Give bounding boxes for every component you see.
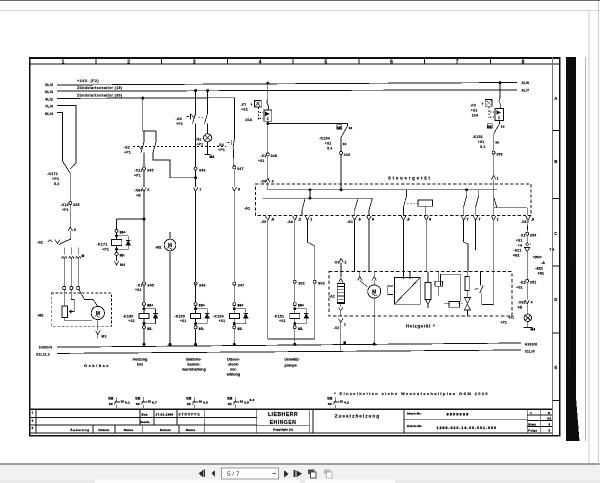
lamp H2 [204, 134, 212, 142]
heater box dashed [329, 272, 512, 317]
wire 359 to arrow 1 [493, 154, 495, 175]
svg-text:Datum: Datum [99, 428, 110, 432]
connector 85- K171 [116, 246, 118, 253]
svg-text:-S3: -S3 [176, 117, 182, 121]
svg-text:+P1: +P1 [102, 247, 109, 251]
wire -K151 to bus [294, 329, 296, 345]
svg-text:+24V- (F2): +24V- (F2) [77, 79, 99, 83]
svg-text:10: 10 [343, 142, 347, 146]
svg-text:8: 8 [522, 60, 525, 66]
connector X1 pin 303 [313, 280, 316, 283]
fuel pump element [425, 283, 431, 300]
svg-text:86+: 86+ [199, 304, 205, 308]
small control box [449, 302, 460, 308]
relay coil -K151 [294, 306, 296, 314]
svg-text:E: E [554, 365, 557, 370]
mech link dashed S2-S4 [133, 146, 226, 148]
svg-text:Gebläse: Gebläse [84, 363, 110, 368]
wire X8-3 down to X1-354 [526, 220, 529, 232]
svg-text:KZ: KZ [109, 402, 113, 406]
svg-text:3.3: 3.3 [203, 400, 208, 404]
svg-text:wärung: wärung [226, 372, 241, 376]
wire X11 to arrow 9 [69, 205, 71, 228]
statusbar slivers [0, 480, 600, 483]
aux wire heater [493, 272, 495, 304]
svg-text:+P1: +P1 [52, 177, 59, 181]
title block row line 2 [29, 424, 257, 426]
wire arrow1 into box [493, 179, 495, 208]
wire resistor to motor [65, 318, 92, 321]
svg-text:+S1: +S1 [471, 108, 478, 112]
breaker contact F9 [499, 98, 501, 108]
wire -K154 to bus [233, 329, 235, 345]
wire X84 down [143, 192, 145, 283]
svg-text:9809669: 9809669 [447, 411, 470, 416]
wire S3 out [195, 124, 197, 168]
svg-text:-X84: -X84 [134, 188, 143, 192]
wire 303 down [314, 283, 316, 339]
control unit box dashed [256, 184, 532, 216]
svg-text:Σ: Σ [498, 116, 500, 120]
fuse F9 [485, 99, 492, 106]
control box contact g [526, 208, 528, 216]
connector X11 pin 346 [194, 167, 197, 170]
svg-text:1: 1 [32, 411, 34, 415]
connector 86+ -K151 [293, 303, 296, 306]
wire 349 into control box [340, 155, 342, 190]
node arrow 9 [68, 227, 72, 231]
wire loop heater [441, 274, 461, 301]
svg-text:+S1: +S1 [219, 319, 226, 323]
wire 348 to X8 [267, 156, 269, 178]
svg-text:Ident-Nr.: Ident-Nr. [407, 412, 422, 416]
svg-text:347: 347 [238, 283, 245, 287]
svg-text:7: 7 [199, 188, 201, 192]
svg-text:+S1: +S1 [279, 319, 286, 323]
toolbar pages icon active [308, 470, 316, 478]
relay coil K171 [111, 240, 121, 246]
svg-text:=: = [530, 411, 532, 415]
svg-text:+P1: +P1 [500, 320, 507, 324]
svg-text:-X2: -X2 [333, 326, 339, 330]
frame column numbers [62, 58, 525, 66]
page right edge line [589, 11, 590, 463]
toolbar page field [222, 468, 279, 479]
svg-text:LIEBHERR: LIEBHERR [268, 412, 298, 418]
svg-text:-K152: -K152 [472, 135, 483, 139]
svg-text:H300/4: H300/4 [39, 346, 52, 350]
mech link dashed S3 [198, 116, 204, 118]
svg-text:-A1: -A1 [244, 206, 250, 210]
wire arrow8 down [233, 191, 235, 282]
diode -K151 [295, 308, 307, 310]
svg-text:5.4: 5.4 [327, 146, 332, 150]
connector X1 pin 349 [340, 152, 343, 155]
svg-text:86+: 86+ [147, 304, 153, 308]
svg-text:Zeich-Nr.: Zeich-Nr. [407, 424, 423, 428]
svg-text:-K171: -K171 [96, 242, 107, 246]
svg-text:Batterie-: Batterie- [186, 357, 202, 361]
svg-text:Düsen-: Düsen- [227, 357, 241, 361]
svg-text:-S2: -S2 [124, 146, 130, 150]
toolbar prev-page icon [211, 470, 215, 477]
control box rail left [268, 189, 497, 191]
svg-text:-X3: -X3 [333, 261, 339, 265]
ground M4 K171 [116, 255, 118, 261]
ident row divider [404, 419, 527, 421]
wire junction to K171 coil [117, 218, 145, 220]
wire glow element leads [340, 272, 342, 278]
svg-text:KZ: KZ [228, 402, 232, 406]
svg-text:+S1: +S1 [538, 271, 545, 275]
connector X2 pin 1 [339, 319, 343, 323]
magnet valve Y vertical [464, 297, 470, 303]
svg-text:Σ: Σ [267, 117, 269, 121]
ground M4 H1 [527, 322, 529, 328]
svg-text:3.5: 3.5 [244, 400, 249, 404]
wire K154 to X1-349 [340, 137, 342, 151]
wire X3 into heater box [340, 262, 342, 271]
svg-text:7: 7 [456, 60, 459, 66]
svg-text:85-: 85- [147, 327, 152, 331]
svg-text:KW: KW [327, 396, 332, 400]
svg-text:6L/7: 6L/7 [522, 88, 530, 92]
svg-text:Bearb.: Bearb. [140, 420, 151, 424]
wire F7 down to X1-348 [267, 124, 269, 153]
connector X1 pin 345 lower [143, 282, 146, 285]
wire F7 out [267, 121, 269, 123]
svg-text:9: 9 [372, 217, 374, 221]
svg-text:-X11: -X11 [134, 168, 142, 172]
viewer window top edge [0, 0, 600, 1]
blower box dashed [51, 293, 111, 326]
svg-text:8: 8 [429, 217, 431, 221]
wire arrow7 down [195, 192, 197, 283]
svg-text:Datum: Datum [160, 428, 171, 432]
title cell divider [312, 409, 314, 433]
svg-text:D: D [554, 297, 557, 302]
svg-text:-X8: -X8 [260, 179, 266, 183]
scan edge faint line [584, 57, 587, 441]
connector A21 triangle [525, 248, 530, 252]
scan artifact black bar [566, 57, 576, 441]
svg-text:KZ: KZ [136, 402, 140, 406]
svg-text:+S1: +S1 [516, 286, 523, 290]
wire X2-1 to bus 31L [340, 323, 342, 352]
flag symbol [435, 281, 443, 286]
connector X1 pin 359 [492, 151, 495, 154]
wire glow to box bottom [340, 311, 342, 316]
wire bus30 corner to S4 [234, 98, 236, 139]
frame top border inner [29, 63, 561, 65]
svg-text:-K151: -K151 [274, 314, 285, 318]
svg-text:1388-620.14.00.001-000: 1388-620.14.00.001-000 [437, 426, 497, 430]
wire bus 31L [57, 350, 521, 353]
connector X11 pin 335 [69, 202, 72, 205]
wire 354 down [526, 235, 528, 243]
motor M upper [164, 239, 176, 251]
wire bus1 to F7 [266, 82, 269, 85]
svg-text:steck-: steck- [228, 362, 240, 366]
svg-text:M4: M4 [120, 263, 125, 267]
svg-text:5.3: 5.3 [250, 398, 255, 402]
svg-text:+P1: +P1 [124, 150, 131, 154]
wire filter [467, 272, 469, 276]
wire X8 into control box [267, 182, 269, 190]
svg-text:8L/4: 8L/4 [45, 111, 54, 116]
svg-text:-F7: -F7 [240, 103, 246, 107]
svg-text:-S4: -S4 [218, 143, 224, 147]
wires pcb top [403, 272, 405, 279]
wire K150 gap [143, 285, 145, 296]
frame bottom border [29, 435, 561, 437]
wire pole2 to motor [79, 290, 98, 307]
svg-text:7: 7 [479, 217, 481, 221]
page top shadow line [0, 10, 600, 11]
wire -K150 to bus [143, 329, 145, 345]
svg-text:-X1: -X1 [520, 234, 526, 238]
relay coil -K150 [143, 306, 145, 314]
relay coil -K154 [233, 306, 235, 314]
svg-text:5.1: 5.1 [480, 145, 485, 149]
connector X1 pin 348 [266, 153, 269, 156]
svg-text:-X8: -X8 [521, 220, 527, 224]
svg-text:5: 5 [324, 60, 327, 66]
svg-text:Folge: Folge [528, 428, 537, 432]
diode -K154 [234, 308, 246, 310]
control box contact e [466, 190, 468, 196]
svg-text:2L/4: 2L/4 [45, 82, 54, 87]
window right edge line [598, 1, 599, 465]
svg-text:-K159: -K159 [174, 314, 185, 318]
svg-text:M: M [82, 254, 85, 258]
svg-text:9: 9 [74, 228, 76, 232]
svg-text:1: 1 [344, 323, 346, 327]
svg-text:2: 2 [345, 261, 347, 265]
svg-text:2: 2 [32, 418, 34, 422]
wire arrow to S1 [69, 231, 71, 238]
title block bottom [29, 432, 552, 434]
svg-text:16A: 16A [245, 118, 252, 122]
wire bus1 to F9 [499, 81, 502, 84]
connector 85- -K150 [143, 318, 145, 325]
wire bus2 to S3b [206, 89, 209, 92]
svg-text:Name: Name [186, 428, 195, 432]
svg-text:EHINGEN: EHINGEN [270, 420, 297, 426]
svg-text:7L/4: 7L/4 [45, 104, 54, 109]
svg-text:351: 351 [530, 281, 537, 285]
svg-text:Zündstartschalter (15): Zündstartschalter (15) [77, 86, 123, 90]
svg-text:5 / 7: 5 / 7 [227, 471, 240, 478]
svg-text:T 4: T 4 [550, 248, 555, 252]
svg-text:4L/2: 4L/2 [45, 97, 54, 102]
connector pin 8 drop [424, 216, 428, 220]
svg-text:359: 359 [496, 152, 502, 156]
svg-text:-X1: -X1 [260, 154, 266, 158]
control box contact b [357, 198, 359, 200]
svg-text:1: 1 [497, 217, 499, 221]
svg-text:-K171: -K171 [47, 172, 58, 176]
title block top [29, 408, 552, 410]
connector 86+ K171 [115, 229, 118, 232]
connector 85- -K159 [195, 318, 197, 325]
wire K152 to X1-359 [493, 134, 495, 151]
wire 7a jog [464, 242, 468, 272]
svg-text:302: 302 [298, 282, 305, 286]
wire F7 to K154 contact [268, 123, 348, 125]
svg-text:85-: 85- [199, 327, 204, 331]
wire S3b to lamp [207, 124, 209, 134]
svg-text:+P1: +P1 [134, 173, 141, 177]
wire S2 branch [144, 130, 156, 132]
wire motor to bus H303 [373, 316, 375, 344]
wire pole1 into box [64, 290, 66, 306]
svg-text:+B: +B [136, 194, 141, 198]
diode -K150 [144, 308, 156, 310]
svg-text:+S1: +S1 [516, 239, 523, 243]
title block verticals row12 [139, 409, 141, 425]
wire bus H300 [57, 343, 521, 347]
svg-text:D1: D1 [547, 417, 551, 421]
connector 86+ -K154 [233, 303, 236, 306]
connector arrow 1 into control box [492, 175, 496, 179]
svg-text:335: 335 [73, 203, 80, 207]
svg-text:+P1: +P1 [62, 208, 69, 212]
wire bus2 to S3 [194, 89, 197, 92]
lamp H1 [524, 314, 531, 321]
connector X8 pin 4 [266, 178, 270, 182]
svg-text:+S1: +S1 [135, 288, 142, 292]
toolbar pages icon disabled [324, 470, 332, 478]
svg-text:10: 10 [349, 126, 353, 130]
svg-text:3: 3 [193, 60, 196, 66]
connector X11 pin 345 [143, 167, 146, 170]
svg-text:-A: -A [541, 261, 545, 265]
wire 8L/4 feeder [57, 112, 63, 161]
svg-text:348: 348 [271, 154, 278, 158]
svg-text:6: 6 [147, 188, 149, 192]
svg-text:.2: .2 [298, 217, 301, 221]
control box wire k152 [494, 197, 497, 207]
svg-text:30: 30 [340, 400, 344, 404]
svg-text:+S1: +S1 [325, 142, 332, 146]
svg-text:KW: KW [227, 396, 232, 400]
fuse F7 [254, 100, 261, 107]
connector 8C pin 8 [352, 216, 356, 220]
connector E1 pin 351 [526, 279, 529, 282]
svg-text:Zusatzheizung: Zusatzheizung [335, 414, 381, 419]
svg-text:H303/6: H303/6 [525, 342, 537, 346]
svg-text:17.01.1996: 17.01.1996 [156, 412, 174, 416]
wire 7b stub [475, 242, 477, 250]
svg-text:-K154: -K154 [319, 137, 330, 141]
svg-text:+D: +D [518, 306, 523, 310]
svg-text:1: 1 [310, 217, 312, 221]
heater glow element A2 [337, 284, 344, 304]
svg-text:347: 347 [237, 167, 244, 171]
connector X1 pin 347 lower [233, 282, 236, 285]
title cell divider 2 [403, 409, 405, 433]
svg-text:31L/6: 31L/6 [525, 350, 535, 354]
connector X82 pin 4 [525, 300, 529, 304]
control box coil link [407, 202, 418, 204]
connector X1 pin 302 [293, 280, 296, 283]
wire S2 out [143, 153, 145, 168]
svg-text:+S1: +S1 [258, 159, 265, 163]
wire bus Zuendstartschalter 30 [57, 97, 235, 100]
svg-text:1: 1 [497, 177, 499, 181]
svg-text:30: 30 [495, 140, 499, 144]
control box contact c [371, 198, 373, 200]
svg-text:-K154: -K154 [213, 314, 224, 318]
svg-text:+S1: +S1 [128, 319, 135, 323]
svg-text:-M2: -M2 [155, 246, 162, 250]
connector pin 1 drop [305, 216, 309, 220]
svg-text:Umwälz-: Umwälz- [284, 358, 300, 362]
svg-text:KW: KW [487, 125, 492, 128]
svg-text:-E1: -E1 [520, 281, 526, 285]
rheostat wiper [70, 290, 75, 312]
connector 8A pin 2 [293, 216, 297, 220]
svg-text:-M2: -M2 [37, 314, 44, 318]
svg-text:6.7: 6.7 [152, 400, 157, 404]
wire bus +24V (F2) [57, 83, 517, 86]
svg-text:10A: 10A [472, 113, 479, 117]
svg-text:-A21: -A21 [535, 267, 543, 271]
svg-text:C: C [554, 231, 557, 236]
motor M2 blower [91, 306, 104, 319]
control box contact a [304, 198, 306, 200]
svg-text:.8: .8 [271, 217, 274, 221]
aux contact heater [479, 272, 481, 286]
svg-text:warmhaltung: warmhaltung [181, 367, 206, 371]
node arrow 7 [195, 170, 197, 187]
frame top border outer [29, 57, 561, 59]
svg-text:+P1: +P1 [176, 122, 183, 126]
svg-text:* Einzelheiten siehe Wesentsc: * Einzelheiten siehe Wesentschaltplan GS… [334, 391, 489, 396]
resistor R blower [62, 306, 68, 318]
svg-text:A: A [554, 96, 557, 101]
connector pin 7 drops [461, 216, 465, 220]
control box rail feed [309, 190, 311, 198]
svg-text:+P1: +P1 [197, 142, 204, 146]
svg-text:B: B [554, 159, 557, 164]
control box rail mid [263, 197, 373, 199]
svg-text:KZ: KZ [187, 402, 191, 406]
svg-text:⊦: ⊦ [482, 102, 484, 106]
connector 86+ -K150 [143, 303, 146, 306]
svg-text:+S1: +S1 [478, 140, 485, 144]
control box contact f [478, 190, 480, 196]
svg-text:5: 5 [549, 423, 551, 427]
svg-text:+A: +A [518, 243, 523, 247]
connector X1 pin 346 lower [194, 282, 197, 285]
svg-text:+S1: +S1 [513, 253, 520, 257]
svg-text:.8: .8 [358, 217, 361, 221]
svg-text:': ' [530, 243, 531, 247]
svg-text:6.1: 6.1 [125, 400, 130, 404]
wire A21 to E1 [526, 252, 528, 280]
frame right border outer [559, 57, 561, 436]
wire motor leads heater [373, 272, 375, 276]
svg-text:1: 1 [62, 60, 65, 66]
connector pin .8b drop [401, 216, 405, 220]
contact K152 [487, 124, 492, 128]
title block row line 1 [29, 416, 257, 418]
toolbar next-page icon [284, 470, 289, 478]
wire motor up [169, 232, 171, 239]
svg-text:86+: 86+ [298, 304, 304, 308]
